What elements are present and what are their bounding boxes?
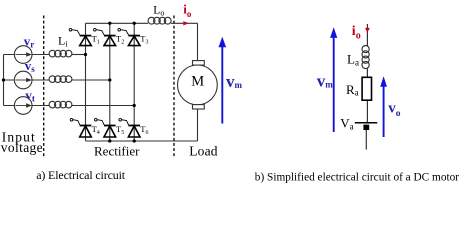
svg-text:voltage: voltage (1, 140, 43, 155)
svg-text:a) Electrical circuit: a) Electrical circuit (36, 168, 126, 182)
svg-text:Load: Load (189, 144, 218, 159)
svg-text:M: M (191, 74, 204, 90)
svg-text:b) Simplified electrical circu: b) Simplified electrical circuit of a DC… (255, 171, 459, 183)
svg-text:Rectifier: Rectifier (94, 144, 140, 159)
